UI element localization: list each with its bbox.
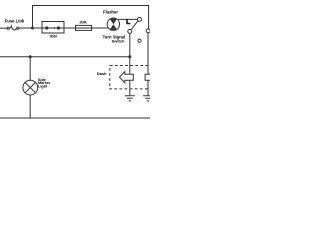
switch wiper arm bbox=[131, 21, 138, 30]
switch feed terminal bbox=[138, 17, 142, 21]
wire bypass riser bbox=[33, 6, 149, 29]
fuse 20A bbox=[76, 25, 92, 30]
node A junction dot bbox=[31, 27, 34, 30]
svg-text:20A: 20A bbox=[79, 20, 86, 25]
wire left contact down bbox=[129, 33, 131, 95]
wire through IGN bbox=[42, 27, 76, 29]
wire lamp to ground bus bbox=[29, 95, 31, 118]
IGN contact small bbox=[54, 27, 56, 29]
svg-text:Fuse Link: Fuse Link bbox=[5, 18, 25, 23]
wire right contact down bbox=[147, 33, 149, 95]
node junction dot side marker bbox=[29, 55, 32, 58]
wire flasher to switch bbox=[118, 18, 137, 20]
ignition switch IGN box bbox=[42, 22, 64, 34]
node junction dot left wire bbox=[128, 55, 131, 58]
switch left contact bbox=[128, 29, 132, 33]
switch middle contact bbox=[138, 39, 141, 42]
flasher circle bbox=[107, 18, 119, 30]
svg-text:Switch: Switch bbox=[112, 39, 125, 44]
IGN contact right bbox=[57, 26, 60, 29]
right turn indicator arrow (clipped) bbox=[145, 72, 159, 83]
L position marker bbox=[127, 19, 130, 24]
flasher bowtie bbox=[110, 19, 117, 30]
wire middle feed bbox=[0, 56, 130, 58]
svg-text:IGN: IGN bbox=[50, 34, 57, 39]
wire side marker drop bbox=[29, 57, 31, 80]
ground bus bbox=[0, 117, 150, 119]
switch right contact bbox=[146, 29, 150, 33]
svg-text:Flasher: Flasher bbox=[103, 9, 118, 14]
IGN contact left bbox=[45, 26, 48, 29]
wire fuse link to junction A bbox=[19, 27, 42, 29]
wire battery feed left bbox=[0, 27, 7, 29]
ground right bbox=[143, 96, 150, 101]
ground left bbox=[125, 96, 135, 101]
left turn indicator arrow bbox=[120, 72, 134, 83]
dash panel dashed box bbox=[110, 66, 156, 89]
fuse link F1 bbox=[7, 27, 9, 29]
side marker lamp bbox=[23, 80, 38, 95]
svg-text:Light: Light bbox=[38, 85, 48, 89]
svg-text:Dash: Dash bbox=[97, 71, 107, 76]
